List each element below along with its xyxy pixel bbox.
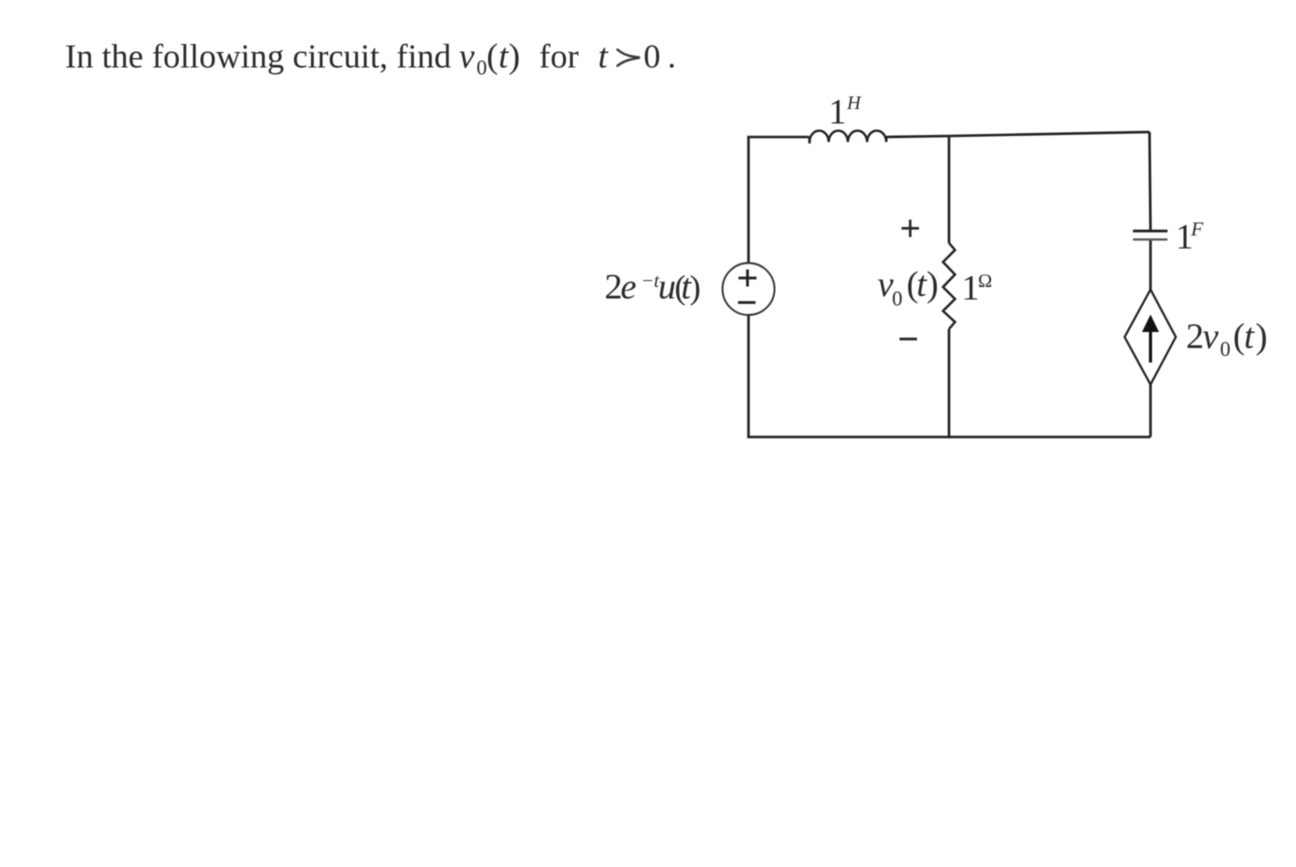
wire capacitor to current source <box>1149 240 1152 290</box>
wire inductor to node A <box>886 136 949 137</box>
value label 1F <box>1176 217 1205 257</box>
wire middle branch upper (node A to resistor) <box>948 135 951 243</box>
svg-text:(: ( <box>487 37 499 76</box>
svg-text:): ) <box>927 264 939 304</box>
svg-text:.: . <box>668 39 677 76</box>
wire node A to top-right corner <box>949 132 1150 136</box>
svg-text:e: e <box>621 267 637 307</box>
voltage source V1 circle <box>723 263 775 315</box>
minus mark of vo(t) <box>900 338 918 341</box>
wire left branch upper (source top to top-left corner) <box>747 137 750 263</box>
svg-text:): ) <box>509 37 521 76</box>
svg-text:H: H <box>846 93 862 114</box>
svg-text:F: F <box>1190 219 1204 241</box>
wire middle branch lower (resistor to bottom junction) <box>948 329 951 438</box>
capacitor C1 bottom plate <box>1133 238 1168 240</box>
svg-text:0: 0 <box>1220 337 1231 361</box>
value label 1H <box>829 92 863 132</box>
svg-text:t: t <box>1244 316 1255 356</box>
current source I1 arrow <box>1142 315 1159 363</box>
problem statement text <box>65 37 676 80</box>
wire current source to bottom-right corner <box>1149 385 1152 438</box>
capacitor C1 top plate <box>1133 230 1168 233</box>
plus mark of vo(t) <box>902 220 920 237</box>
svg-text:): ) <box>1256 316 1268 356</box>
dependent current source I1 diamond <box>1125 290 1176 385</box>
voltage source V1 plus polarity <box>739 270 757 287</box>
wire top-left horizontal to inductor <box>747 136 809 139</box>
svg-text:1: 1 <box>962 268 980 308</box>
value label 2vo(t) <box>1186 316 1268 361</box>
svg-text:0: 0 <box>644 39 661 76</box>
svg-text:Ω: Ω <box>978 271 992 292</box>
svg-text:−t: −t <box>641 271 660 292</box>
value label 2e^-t u(t) <box>605 267 701 307</box>
value label 1 ohm <box>962 268 993 308</box>
svg-text:0: 0 <box>477 56 488 80</box>
svg-text:t: t <box>598 37 609 76</box>
succ symbol in t>0 <box>618 50 640 66</box>
resistor R1 zigzag <box>943 243 955 329</box>
wire bottom horizontal <box>747 436 1150 439</box>
svg-text:v: v <box>1203 316 1219 356</box>
svg-text:1: 1 <box>829 92 847 132</box>
voltage source V1 minus polarity <box>738 301 756 304</box>
svg-text:for: for <box>539 39 579 76</box>
node voltage label vo(t) <box>878 264 939 311</box>
svg-text:In the following circuit, find: In the following circuit, find <box>65 39 451 76</box>
wire right branch upper (top-right corner to capacitor) <box>1150 132 1151 231</box>
svg-text:2: 2 <box>1186 316 1204 356</box>
wire left branch lower (source bottom to bottom-left corner) <box>747 315 750 437</box>
inductor L1 <box>810 131 887 144</box>
svg-text:): ) <box>690 270 701 307</box>
svg-text:0: 0 <box>892 287 903 311</box>
svg-text:v: v <box>459 37 475 76</box>
svg-text:u: u <box>658 267 676 307</box>
